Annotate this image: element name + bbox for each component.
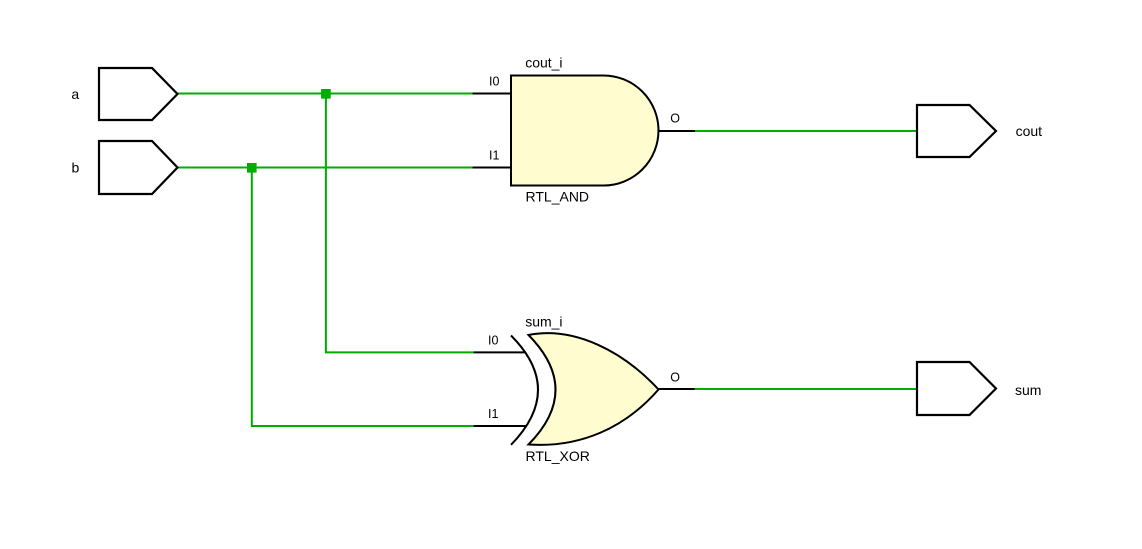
output port sum <box>917 362 996 415</box>
svg-text:RTL_XOR: RTL_XOR <box>526 448 590 464</box>
xor gate sum_i input arc <box>511 336 538 445</box>
wire net a horizontal <box>178 93 473 95</box>
svg-text:sum: sum <box>1015 382 1041 398</box>
xor gate sum_i pin I1 <box>474 425 527 427</box>
wire net b branch to XOR I1 <box>252 168 474 427</box>
and gate cout_i pin I1 <box>472 167 512 169</box>
xor gate sum_i pin I0 <box>474 351 526 353</box>
and gate cout_i pin O <box>659 130 696 132</box>
junction net b <box>247 163 257 173</box>
and gate cout_i body RTL_AND <box>511 76 658 186</box>
xor gate sum_i body RTL_XOR <box>529 333 659 445</box>
wire net b horizontal <box>178 167 472 169</box>
svg-text:I0: I0 <box>489 75 499 89</box>
input port a <box>99 68 178 120</box>
junction net a <box>321 89 331 99</box>
wire net sum <box>695 388 918 390</box>
svg-text:I0: I0 <box>488 334 498 348</box>
output port cout <box>917 105 996 157</box>
svg-text:O: O <box>670 111 680 125</box>
svg-text:O: O <box>670 370 680 384</box>
svg-text:I1: I1 <box>488 407 498 421</box>
svg-text:sum_i: sum_i <box>525 314 562 330</box>
svg-text:b: b <box>72 159 80 175</box>
svg-text:cout: cout <box>1016 123 1043 139</box>
svg-text:cout_i: cout_i <box>525 54 562 70</box>
svg-text:a: a <box>71 86 79 102</box>
and gate cout_i pin I0 <box>472 93 512 95</box>
wire net a branch to XOR I0 <box>326 94 474 353</box>
wire net cout <box>695 130 917 132</box>
input port b <box>99 141 178 194</box>
xor gate sum_i pin O <box>659 388 695 390</box>
svg-text:RTL_AND: RTL_AND <box>526 188 590 204</box>
svg-text:I1: I1 <box>489 149 499 163</box>
